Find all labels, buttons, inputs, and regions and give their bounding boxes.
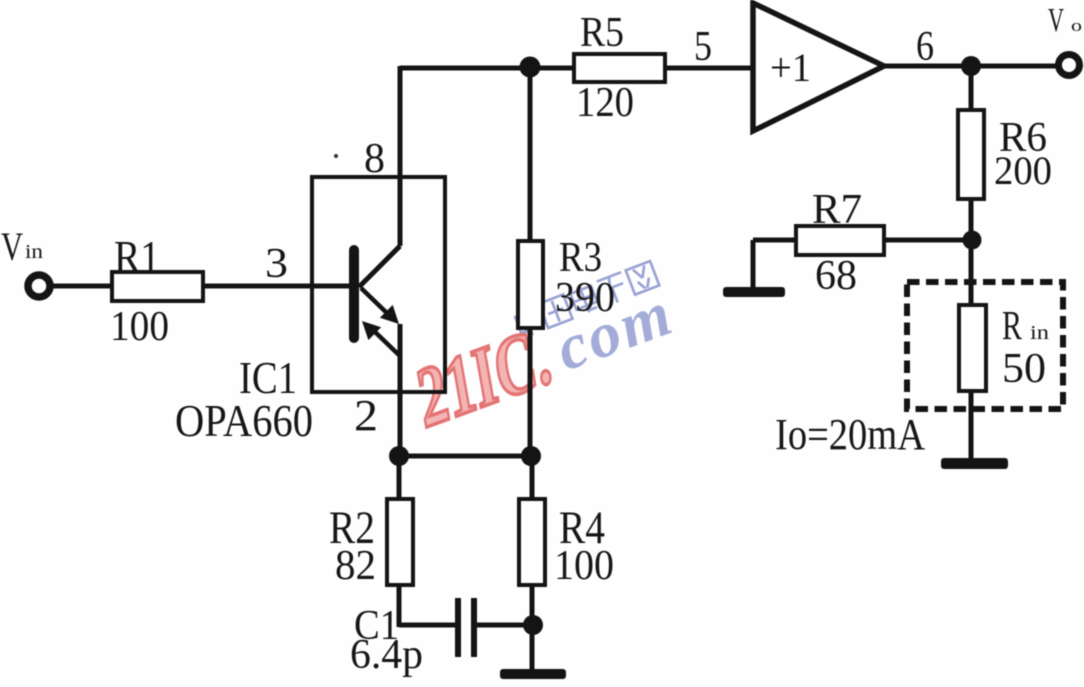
svg-text:o: o <box>1071 16 1082 35</box>
svg-text:in: in <box>25 241 43 263</box>
svg-text:R: R <box>1002 302 1022 348</box>
svg-text:50: 50 <box>1002 346 1046 392</box>
svg-text:68: 68 <box>815 253 857 299</box>
svg-text:R1: R1 <box>114 232 160 282</box>
svg-text:2: 2 <box>354 391 378 440</box>
svg-text:V: V <box>1048 2 1064 39</box>
svg-text:3: 3 <box>265 241 288 287</box>
svg-text:in: in <box>1030 322 1049 344</box>
svg-text:82: 82 <box>335 543 376 589</box>
svg-text:5: 5 <box>694 24 712 70</box>
svg-text:R5: R5 <box>580 10 624 56</box>
svg-text:6: 6 <box>916 24 934 70</box>
svg-text:8: 8 <box>364 136 385 182</box>
svg-text:200: 200 <box>994 148 1052 193</box>
svg-text:6.4p: 6.4p <box>350 632 423 678</box>
svg-text:+1: +1 <box>770 45 811 90</box>
svg-text:OPA660: OPA660 <box>175 395 313 446</box>
svg-text:100: 100 <box>110 304 169 350</box>
svg-text:120: 120 <box>576 80 634 126</box>
svg-text:V: V <box>1 224 23 269</box>
svg-text:Io=20mA: Io=20mA <box>775 410 925 459</box>
svg-text:100: 100 <box>554 543 614 589</box>
svg-text:390: 390 <box>555 275 615 321</box>
svg-text:R7: R7 <box>812 187 862 233</box>
